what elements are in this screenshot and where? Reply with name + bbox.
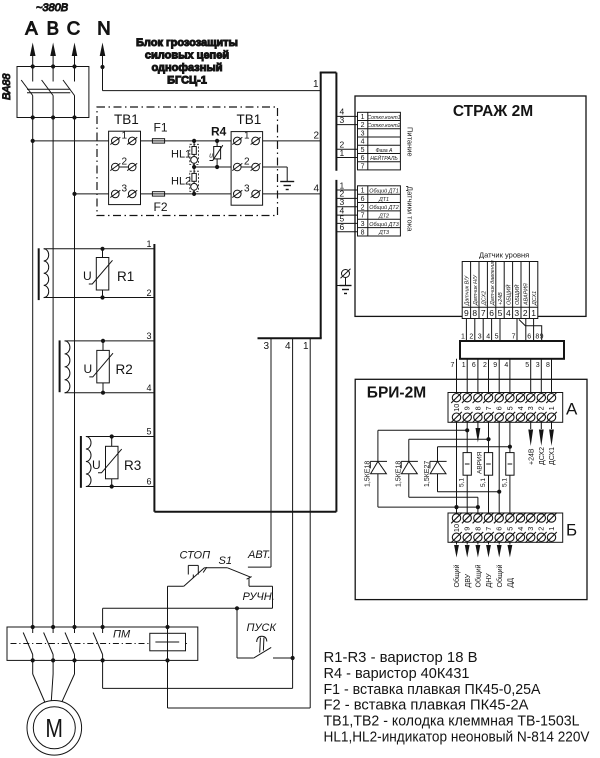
breaker tie bar — [27, 89, 70, 93]
svg-text:2: 2 — [314, 131, 320, 142]
svg-text:HL1: HL1 — [171, 149, 191, 161]
svg-text:4: 4 — [516, 527, 525, 531]
svg-text:ТВ1: ТВ1 — [237, 112, 262, 127]
svg-text:1,5КЕ18: 1,5КЕ18 — [365, 461, 372, 487]
wire A7 to B7 — [488, 422, 490, 513]
svg-text:N: N — [97, 17, 110, 38]
arrow neutral N — [100, 43, 106, 68]
terminal strip B — [448, 513, 563, 543]
svg-text:4: 4 — [314, 184, 320, 195]
svg-text:6: 6 — [495, 406, 504, 410]
svg-text:ДСХ2: ДСХ2 — [481, 291, 487, 306]
label F2 — [154, 200, 168, 214]
svg-text:Датчик давления: Датчик давления — [490, 260, 496, 306]
wire to A10 — [451, 359, 457, 394]
current transformer T3 (phase C) — [81, 436, 91, 488]
svg-text:3: 3 — [244, 184, 250, 195]
svg-text:СТОП: СТОП — [180, 550, 211, 562]
label pin 1 duct — [313, 79, 319, 90]
node dots breaker terminals — [31, 64, 105, 119]
svg-text:9: 9 — [463, 527, 472, 531]
rail VD2 top — [409, 438, 489, 440]
pushbutton PUSK — [237, 608, 293, 658]
wire to A3 — [525, 359, 531, 394]
wire to A5 — [504, 359, 510, 394]
label PM — [113, 629, 131, 641]
svg-text:2: 2 — [483, 362, 487, 369]
svg-text:ДТ1: ДТ1 — [378, 197, 389, 203]
svg-text:1: 1 — [244, 131, 250, 142]
svg-text:2: 2 — [361, 204, 365, 211]
wire motor phase B — [51, 660, 53, 701]
label wire 4 — [147, 383, 152, 393]
svg-text:1: 1 — [361, 114, 365, 121]
wire A9 to B9 — [466, 422, 468, 513]
svg-text:1: 1 — [547, 406, 556, 410]
label drop 1 — [303, 341, 309, 352]
svg-text:7: 7 — [484, 406, 493, 410]
label VA88 — [1, 73, 13, 100]
node dots BRI rails — [454, 428, 512, 509]
label VD3 — [424, 461, 431, 487]
svg-text:5,1: 5,1 — [459, 478, 466, 487]
svg-text:ДТ2: ДТ2 — [378, 214, 389, 220]
svg-text:7: 7 — [361, 213, 365, 220]
contact RUCHN wire — [247, 577, 273, 609]
label M motor — [45, 713, 63, 743]
svg-text:9: 9 — [540, 334, 544, 341]
svg-text:9: 9 — [464, 308, 469, 318]
svg-text:3: 3 — [361, 221, 365, 228]
label U R3 — [92, 458, 101, 472]
svg-text:4: 4 — [504, 362, 508, 369]
cable duct bottom rail — [258, 337, 322, 339]
wire conn pin6 down — [486, 319, 491, 342]
label B8 Obshchiy — [475, 564, 483, 587]
wire A5 to B5 — [509, 422, 511, 513]
rail VD2 bottom — [409, 496, 478, 498]
stub sensor wire 3 — [336, 197, 357, 207]
label PUSK — [247, 622, 277, 634]
svg-text:ДД: ДД — [508, 578, 515, 588]
svg-text:5: 5 — [498, 308, 503, 318]
label 5,1 col9 — [459, 478, 466, 487]
wire L row1 (phase A to duct pin 2) — [33, 140, 321, 142]
svg-text:1: 1 — [547, 527, 556, 531]
neon indicator HL1 — [190, 141, 199, 167]
label HL2 — [171, 176, 191, 188]
breaker pole C — [63, 67, 75, 118]
rail VD1 top — [378, 429, 467, 431]
svg-text:5: 5 — [505, 406, 514, 410]
wire neutral N to duct pin 1 — [103, 67, 321, 91]
R-bus cable vertical — [153, 244, 155, 512]
svg-text:ДСХ1: ДСХ1 — [549, 447, 556, 465]
svg-text:1: 1 — [147, 239, 152, 249]
rail VD1 bottom — [378, 506, 478, 508]
svg-text:2: 2 — [244, 157, 250, 168]
label drop 3 — [264, 341, 270, 352]
svg-text:Датчик уровня: Датчик уровня — [479, 251, 529, 260]
svg-text:1: 1 — [313, 79, 319, 90]
svg-text:4: 4 — [361, 139, 365, 146]
svg-text:3: 3 — [526, 527, 535, 531]
terminal strip A — [448, 392, 563, 422]
svg-text:6: 6 — [472, 362, 476, 369]
PM auxiliary contact — [93, 627, 103, 660]
stub sensor wire 4 — [336, 205, 357, 215]
cable shield terminal — [336, 269, 350, 286]
legend line F2 — [324, 697, 529, 714]
svg-text:ДНУ: ДНУ — [486, 573, 493, 588]
svg-text:Общий: Общий — [475, 564, 483, 587]
svg-text:3: 3 — [514, 308, 519, 318]
node dots BGSC wires — [31, 139, 220, 196]
arrow phase B — [50, 43, 56, 68]
svg-text:М: М — [45, 713, 63, 743]
svg-text:U: U — [84, 362, 93, 376]
resistor 5,1 col5 — [506, 453, 514, 476]
TVS diode VD3 1,5KE27 — [430, 447, 447, 492]
svg-text:5,1: 5,1 — [501, 478, 508, 487]
svg-text:4: 4 — [147, 383, 152, 393]
PM contact pole C — [65, 627, 75, 660]
svg-text:ВА88: ВА88 — [1, 73, 13, 100]
svg-text:ТВ1,ТВ2 - колодка клеммная ТВ-: ТВ1,ТВ2 - колодка клеммная ТВ-1503L — [324, 713, 580, 730]
wire to A7 — [483, 359, 489, 394]
stub pin 4 (power row1) — [336, 107, 357, 117]
wire motor phase C — [61, 660, 74, 703]
svg-text:5: 5 — [525, 362, 529, 369]
svg-text:6: 6 — [340, 222, 345, 232]
breaker pole A — [21, 67, 33, 118]
svg-text:Блок грозозащиты: Блок грозозащиты — [136, 37, 238, 49]
ground symbol BGSC — [280, 182, 294, 190]
phase label B — [47, 17, 59, 38]
svg-text:8: 8 — [473, 527, 482, 531]
svg-text:Датчики тока: Датчики тока — [406, 186, 415, 232]
label AVARIYA — [477, 451, 484, 474]
phase label A — [25, 17, 38, 38]
svg-text:R4 - варистор 40К431: R4 - варистор 40К431 — [324, 665, 470, 682]
svg-text:АВТ.: АВТ. — [247, 549, 271, 561]
phase label C — [67, 17, 80, 38]
svg-text:В: В — [47, 17, 59, 38]
label B6 Obshchiy — [496, 564, 504, 587]
svg-text:Б: Б — [566, 521, 577, 540]
svg-text:1,5КЕ18: 1,5КЕ18 — [395, 461, 402, 487]
svg-text:1: 1 — [361, 188, 365, 195]
label wire 5 — [147, 427, 152, 437]
svg-text:2: 2 — [537, 527, 546, 531]
svg-text:ПУСК: ПУСК — [247, 622, 277, 634]
svg-text:Соткл.конт2: Соткл.конт2 — [367, 123, 400, 129]
fuse F2 — [152, 192, 164, 196]
arrow output +24V — [528, 422, 533, 446]
wire coil to wire1 bottom — [168, 660, 311, 708]
svg-text:4: 4 — [506, 308, 511, 318]
wire phase B vertical — [52, 118, 54, 628]
svg-text:3: 3 — [361, 131, 365, 138]
rail VD3 bottom — [438, 491, 500, 493]
wire to A8 — [472, 359, 478, 394]
label STRAZH 2M — [453, 103, 533, 120]
legend line F1 — [324, 681, 541, 698]
wire conn pin8 down — [469, 319, 474, 342]
svg-text:Общий ДТ3: Общий ДТ3 — [369, 221, 398, 228]
arrow output B6 Obshchiy — [497, 542, 502, 557]
wire row3 (phase C to duct pin 4) — [75, 193, 321, 195]
cable duct vertical (left edge) — [320, 73, 322, 339]
cable duct horizontal (to BRI) — [460, 341, 564, 359]
svg-text:HL2: HL2 — [171, 176, 191, 188]
wire conn pin7 down — [478, 319, 483, 342]
svg-text:R3: R3 — [124, 458, 141, 473]
label strip B — [566, 521, 577, 540]
svg-text:7: 7 — [512, 334, 516, 341]
svg-text:Соткл.конт1: Соткл.конт1 — [367, 115, 400, 121]
label wire 1 — [147, 239, 152, 249]
label B5 DD — [508, 578, 515, 588]
label STOP — [180, 550, 211, 562]
label VD1 — [365, 461, 372, 487]
wire A6 to B6 — [498, 422, 500, 513]
arrow output B8 Obshchiy — [476, 542, 481, 557]
svg-text:R1-R3 - варистор 18 В: R1-R3 - варистор 18 В — [324, 649, 478, 666]
svg-text:3: 3 — [122, 184, 128, 195]
svg-text:S1: S1 — [219, 555, 232, 567]
wire B8 segment — [477, 497, 479, 513]
svg-text:ОБЩИЙ: ОБЩИЙ — [505, 284, 513, 305]
label AVT — [247, 549, 271, 561]
wire jog crossing — [519, 320, 544, 342]
label R1 — [117, 269, 134, 284]
label Datchiki toka rotated — [406, 186, 415, 232]
BGSC-1 title text — [136, 37, 238, 87]
svg-text:ТВ1: ТВ1 — [114, 112, 139, 127]
unit BRI-2M box — [355, 379, 587, 599]
legend line HL1 HL2 — [324, 729, 590, 746]
stub pin 3 (power row2) — [336, 115, 357, 125]
label HL1 — [171, 149, 191, 161]
svg-text:5: 5 — [361, 147, 365, 154]
label R2 — [116, 362, 133, 377]
cable to R-bus horizontal — [154, 511, 336, 513]
wire 5 (T3 top to R-bus) — [86, 436, 154, 438]
label pin 2 duct — [314, 131, 320, 142]
arrow output B9 DVU — [465, 542, 470, 557]
label drop 4 — [285, 341, 291, 352]
svg-text:1: 1 — [531, 308, 536, 318]
wire conn pin2 down — [526, 319, 531, 342]
node dots R3 — [110, 434, 114, 488]
svg-text:10: 10 — [452, 404, 461, 412]
label +24V — [528, 448, 535, 465]
varistor R3 — [98, 437, 122, 487]
label wire 2 — [147, 288, 152, 298]
arrow output B5 DD — [508, 542, 513, 557]
svg-text:+24В: +24В — [528, 448, 535, 465]
svg-text:9: 9 — [493, 362, 497, 369]
label S1 — [219, 555, 232, 567]
PM contact pole B — [44, 627, 54, 660]
cable duct right edge upper — [335, 73, 337, 171]
arrow output B10 Obshchiy — [454, 542, 459, 557]
svg-text:3: 3 — [478, 334, 482, 341]
wire conn pin5 down — [495, 319, 500, 342]
svg-text:U: U — [92, 458, 101, 472]
label Datchik urovnya — [479, 251, 529, 260]
stub sensor wire 5 — [336, 214, 357, 224]
label B9 DVU — [465, 573, 472, 587]
svg-text:Фаза А: Фаза А — [375, 148, 393, 154]
node dots PM box — [31, 625, 170, 663]
legend line R4 — [324, 665, 470, 682]
TVS diode VD2 1,5KE18 — [401, 439, 418, 497]
wire 4 (T2 bottom to R-bus) — [65, 392, 155, 394]
stub sensor wire 1 — [336, 180, 357, 190]
node dots R1 — [100, 247, 104, 300]
wire phase A vertical — [32, 118, 34, 628]
label U R1 — [83, 269, 92, 283]
svg-text:HL1,HL2-индикатор неоновый N-8: HL1,HL2-индикатор неоновый N-814 220V — [324, 729, 590, 746]
svg-text:4: 4 — [486, 334, 490, 341]
label F1 — [154, 121, 168, 135]
motor M — [27, 701, 82, 756]
label U R2 — [84, 362, 93, 376]
circuit breaker QF VA88 box — [17, 67, 89, 118]
cable duct top cap — [320, 72, 337, 74]
svg-text:1: 1 — [340, 148, 345, 158]
stub sensor wire 2 — [336, 189, 357, 199]
stub pin 1 (power row6) — [336, 148, 357, 158]
svg-text:8: 8 — [473, 406, 482, 410]
wire A10 to B10 — [456, 422, 458, 513]
svg-text:8: 8 — [546, 362, 550, 369]
label TB1 right — [237, 112, 262, 127]
wire conn pin3 down — [512, 319, 517, 342]
wire motor phase A — [33, 660, 45, 702]
svg-text:С: С — [67, 17, 80, 38]
svg-text:5,1: 5,1 — [480, 478, 487, 487]
contact AVT — [248, 566, 271, 568]
svg-text:АВАРИЯ: АВАРИЯ — [523, 283, 529, 306]
wire 2 (T1 bottom to R-bus) — [44, 297, 155, 299]
stub pin 2 (power row5) — [336, 140, 357, 150]
svg-text:СТРАЖ 2М: СТРАЖ 2М — [453, 103, 533, 120]
svg-text:Питание: Питание — [406, 127, 415, 157]
svg-text:8: 8 — [472, 308, 477, 318]
label VD2 — [395, 461, 402, 487]
svg-text:3: 3 — [264, 341, 270, 352]
svg-text:2: 2 — [361, 122, 365, 129]
label ~380V — [36, 2, 68, 14]
svg-text:R1: R1 — [117, 269, 134, 284]
svg-text:7: 7 — [451, 362, 455, 369]
svg-text:F2: F2 — [154, 200, 168, 214]
svg-text:Общий: Общий — [453, 564, 461, 587]
svg-text:u: u — [209, 153, 213, 160]
svg-text:3: 3 — [147, 331, 152, 341]
svg-text:6: 6 — [361, 155, 365, 162]
svg-text:2: 2 — [122, 157, 128, 168]
wire to A9 — [462, 359, 468, 394]
switch S1 — [204, 568, 251, 578]
label R3 — [124, 458, 141, 473]
svg-text:ОБЩИЙ: ОБЩИЙ — [513, 284, 521, 305]
wire phase C vertical — [74, 118, 76, 628]
svg-text:1,5КЕ27: 1,5КЕ27 — [424, 461, 431, 487]
svg-text:7: 7 — [481, 308, 486, 318]
current transformer T2 (phase B) — [60, 340, 70, 392]
neon indicator HL2 — [190, 167, 199, 194]
neutral label N — [97, 17, 110, 38]
svg-text:2: 2 — [469, 334, 473, 341]
svg-text:R2: R2 — [116, 362, 133, 377]
PM contact pole A — [23, 627, 33, 660]
svg-text:5: 5 — [147, 427, 152, 437]
cable duct right edge lower — [335, 180, 337, 512]
svg-text:2: 2 — [537, 406, 546, 410]
wire aux to wire4 bottom — [103, 660, 293, 688]
stub sensor wire 6 — [336, 222, 357, 232]
wire 6 (T3 bottom to R-bus) — [86, 486, 154, 488]
terminal block TB1 right — [231, 131, 263, 206]
varistor R1 — [89, 249, 113, 298]
svg-text:4: 4 — [285, 341, 291, 352]
varistor R4 — [209, 141, 223, 167]
label BRI-2M — [367, 385, 426, 402]
rail VD3 top — [438, 446, 510, 448]
label RUCHN — [243, 591, 275, 603]
svg-text:ДСХ2: ДСХ2 — [539, 447, 546, 465]
wire to A2 — [536, 359, 542, 394]
wire 1 drop (duct to coil return) — [309, 338, 311, 708]
svg-text:F1 - вставка плавкая ПК45-0,25: F1 - вставка плавкая ПК45-0,25А — [324, 681, 541, 698]
label wire 6 — [147, 477, 152, 487]
svg-text:ПМ: ПМ — [113, 629, 131, 641]
svg-text:6: 6 — [495, 527, 504, 531]
arrow phase C — [72, 43, 78, 68]
svg-text:4: 4 — [516, 406, 525, 410]
svg-text:6: 6 — [527, 334, 531, 341]
svg-text:~380В: ~380В — [36, 2, 68, 14]
label pin 4 duct — [314, 184, 320, 195]
svg-text:АВРИЯ: АВРИЯ — [477, 451, 484, 474]
svg-text:А: А — [25, 17, 38, 38]
resistor 5,1 col9 — [463, 453, 471, 476]
unit STRAZH 2M box — [355, 96, 586, 316]
wire mid row2 — [194, 167, 287, 182]
svg-text:РУЧН.: РУЧН. — [243, 591, 275, 603]
BGSC-1 dashed enclosure — [97, 107, 278, 216]
svg-text:2: 2 — [147, 288, 152, 298]
breaker pole B — [42, 67, 54, 118]
current transformer T1 (phase A) — [39, 248, 49, 300]
label 5,1 col7 — [480, 478, 487, 487]
svg-text:3: 3 — [526, 406, 535, 410]
label 5,1 col5 — [501, 478, 508, 487]
wire conn pin9 down — [461, 319, 466, 342]
svg-text:10: 10 — [452, 524, 461, 532]
svg-text:3: 3 — [536, 362, 540, 369]
svg-text:Общий ДТ1: Общий ДТ1 — [369, 187, 398, 194]
contactor PM box — [7, 627, 198, 660]
terminal block TB1 left — [109, 131, 141, 205]
svg-text:8: 8 — [361, 229, 365, 236]
legend line R1-R3 — [324, 649, 478, 666]
svg-text:7: 7 — [484, 527, 493, 531]
